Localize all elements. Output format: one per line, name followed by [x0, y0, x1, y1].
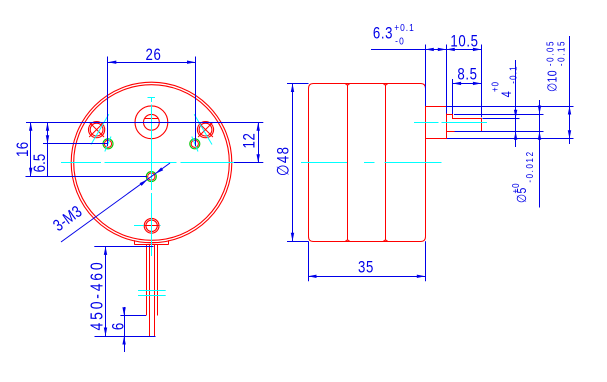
svg-text:-0: -0: [395, 35, 405, 47]
dimension 10.5 dimension line: [446, 49, 481, 51]
shaft flat chord: [145, 118, 158, 120]
horizontal center line front view: [61, 162, 101, 164]
bolt circle arc at right screw: [194, 114, 212, 144]
center hub boss circle (phi10): [135, 106, 168, 139]
dimension phi5 extension line bottom: [455, 131, 544, 133]
side view body outline: [309, 84, 426, 242]
left screw head: [89, 122, 105, 138]
dimension phi48 extension lines: [287, 83, 309, 85]
dimension 35 dimension line: [308, 276, 425, 278]
front view inner circle (can flange): [74, 85, 230, 241]
output shaft outline: [447, 115, 482, 132]
wire break marks: [138, 290, 166, 292]
svg-text:-0.1: -0.1: [507, 65, 518, 84]
bolt circle arc at left screw: [91, 114, 109, 144]
dimension 4 extension line (flat): [482, 118, 519, 120]
dimension phi10 extension line top: [446, 106, 573, 108]
dimension 26 extension line left: [107, 57, 109, 147]
dimension 6 extension line: [120, 315, 146, 317]
leader 3-M3: [61, 163, 170, 242]
dimension 12 dimension line: [258, 122, 260, 162]
svg-text:8.5: 8.5: [457, 65, 477, 84]
svg-text:26: 26: [146, 46, 162, 65]
mounting hole M3 upper-right: [190, 139, 200, 149]
dimension 4 dimension line: [515, 60, 517, 147]
mounting hole M3 bottom: [146, 172, 156, 182]
dimension 12 extension line bottom: [234, 162, 263, 164]
right screw head: [197, 122, 213, 138]
svg-text:+0: +0: [489, 81, 500, 92]
dimension phi5 extension line top: [454, 114, 544, 116]
dimension 6 dimension line: [124, 307, 126, 352]
dimension 450-460 extension line bottom: [95, 336, 156, 338]
dimension 35 extension line right: [425, 241, 427, 281]
center line top tick: [148, 97, 156, 99]
lead wires (cable): [146, 245, 148, 316]
svg-text:10.5: 10.5: [450, 32, 478, 51]
dimension 16 dimension line: [30, 122, 32, 176]
reference line through bottom hole: [26, 176, 148, 178]
svg-text:-0.05: -0.05: [544, 40, 555, 66]
hole circle arc at left hole: [105, 137, 111, 152]
dimension 6.5 dimension line: [47, 122, 49, 176]
svg-text:450-460: 450-460: [88, 260, 107, 331]
svg-text:12: 12: [240, 133, 259, 149]
dimension 450-460 dimension line: [105, 246, 107, 336]
svg-text:4: 4: [499, 91, 514, 98]
dimension 8.5 dimension line: [453, 83, 482, 85]
svg-text:+0.1: +0.1: [394, 22, 414, 34]
dimension 6.3 extension line right: [446, 45, 448, 114]
dimension 26 extension line right: [195, 57, 197, 147]
reference line through hub and screws: [26, 122, 263, 124]
dimension 35 extension line left: [308, 241, 310, 281]
dimension 6.3 dimension line: [371, 49, 446, 51]
dimension phi10 dimension line: [569, 36, 571, 144]
bottom screw head: [144, 218, 159, 233]
shaft circle (phi5): [144, 114, 160, 130]
front view outer circle (motor can): [71, 82, 232, 243]
svg-text:6.3: 6.3: [373, 24, 393, 43]
svg-text:6.5: 6.5: [31, 154, 50, 173]
dimension 6.3 extension line left: [425, 45, 427, 107]
shaft center line: [414, 122, 439, 124]
svg-text:-0.15: -0.15: [555, 40, 566, 66]
svg-text:+0: +0: [510, 182, 521, 193]
dimension 450-460 extension line top: [94, 246, 153, 248]
svg-text:∅48: ∅48: [274, 146, 293, 177]
dimension phi5 dimension line: [539, 100, 541, 208]
svg-text:16: 16: [13, 141, 32, 156]
svg-text:35: 35: [358, 258, 374, 277]
mounting hole M3 upper-left: [103, 139, 113, 149]
dimension 8.5 extension line left: [452, 79, 454, 114]
side body center line: [301, 162, 347, 164]
reference line through upper holes: [43, 143, 108, 145]
mounting boss: [426, 107, 447, 139]
seam notches: [345, 84, 350, 86]
svg-text:∅10: ∅10: [545, 70, 559, 92]
dimension 26 dimension line: [108, 62, 196, 64]
body seam line 1: [347, 84, 349, 241]
body seam line 2: [385, 84, 387, 241]
hole circle arc at right hole: [192, 137, 198, 152]
bare wire ends: [149, 245, 151, 336]
dimension 10.5 extension line right: [481, 45, 483, 118]
vertical center line front view: [151, 98, 153, 103]
bolt circle arc at bottom screw: [134, 225, 144, 227]
svg-text:6: 6: [109, 323, 128, 330]
dimension phi10 extension line bottom: [447, 138, 574, 140]
svg-text:-0.012: -0.012: [524, 150, 535, 182]
dimension phi48 dimension line: [292, 84, 294, 242]
terminal tab outline at bottom of can: [134, 240, 136, 244]
